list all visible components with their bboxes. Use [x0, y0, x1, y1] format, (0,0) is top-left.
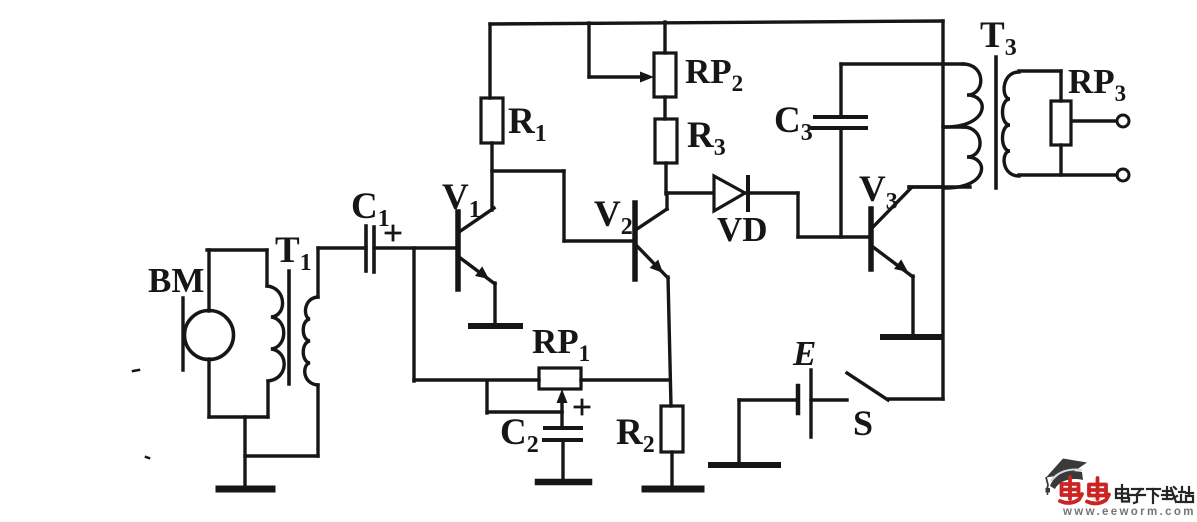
wire RP3 bottom lead — [1059, 145, 1062, 175]
wire C3 bottom lead — [839, 128, 842, 237]
wire RP3 top lead — [1059, 71, 1062, 101]
resistor R2 — [661, 406, 683, 452]
transformer T3 core — [994, 57, 998, 188]
transistor V3 — [871, 187, 943, 335]
wire BM bottom lead — [207, 359, 210, 417]
wire T1 secondary bottom lead — [316, 385, 319, 456]
potentiometer RP2 — [654, 53, 676, 97]
wire top supply rail — [490, 21, 943, 24]
wire R2 bottom lead — [670, 452, 673, 487]
capacitor C1 — [366, 226, 374, 272]
resistor R1 — [481, 98, 503, 143]
wire T1 secondary bottom to ground branch — [245, 454, 318, 457]
svg-text:BM: BM — [148, 261, 204, 300]
resistor R3 — [655, 119, 677, 163]
wire VD to corner — [746, 191, 798, 194]
wire C3 top lead — [839, 64, 842, 116]
ground (C2) — [538, 479, 589, 486]
potentiometer RP1 — [539, 368, 581, 389]
transformer T3 secondary coil — [1003, 72, 1020, 176]
svg-text:VD: VD — [717, 210, 768, 249]
wire T1 primary bottom lead — [266, 381, 269, 417]
svg-text:S: S — [853, 403, 873, 443]
wire T3 secondary bottom lead — [1019, 173, 1117, 176]
watermark chongchong characters — [1060, 477, 1109, 503]
watermark logo graduation cap — [1046, 459, 1088, 496]
wire node to diode VD — [666, 191, 714, 194]
wire RP3 wiper to output — [1072, 119, 1116, 122]
wire C2 top lead — [560, 412, 563, 426]
ground (V3 emitter) — [883, 334, 939, 340]
wire RP2 top lead — [663, 22, 666, 53]
wire RP2 to R3 — [663, 97, 666, 119]
wire corner down — [796, 193, 799, 237]
wire R1 top lead — [488, 24, 491, 98]
terminal (output bottom) — [1117, 169, 1129, 181]
capacitor C3 — [813, 117, 866, 128]
wire C2 bottom lead — [561, 441, 564, 481]
microphone BM — [183, 298, 234, 370]
wire battery to switch — [811, 398, 847, 401]
wire R1 bottom lead — [490, 143, 493, 210]
wire RP1 right to R2 node — [581, 378, 670, 381]
ground (V1 emitter) — [471, 323, 520, 329]
wire BM top lead — [207, 250, 210, 311]
wire corner to V3 base — [798, 235, 871, 238]
wire RP1 wiper loop (vertical) — [485, 381, 488, 413]
speck — [133, 370, 139, 371]
plus sign (C1 polarity) — [386, 226, 400, 240]
wire V2 emitter to R2 — [668, 277, 671, 406]
wire C1 junction down to feedback rail — [412, 248, 415, 381]
wire V1 collector to V2 base (horizontal) — [492, 169, 564, 172]
capacitor C2 — [544, 428, 581, 440]
speck — [146, 457, 149, 458]
wire RP1 wiper loop (horizontal) — [487, 410, 562, 413]
wire C3 to T3 primary top — [841, 62, 964, 65]
wire T1 secondary to C1 — [318, 246, 366, 249]
wire battery ground branch — [737, 400, 740, 463]
battery E — [798, 370, 811, 437]
wire feedback rail to RP1 left — [414, 378, 539, 381]
svg-text:www.eeworm.com: www.eeworm.com — [1062, 506, 1196, 517]
wire T3 primary bottom to V3 collector — [909, 185, 970, 188]
transformer T1 core — [287, 271, 291, 384]
ground (T1/BM) — [219, 486, 272, 493]
wire T1 secondary top lead — [316, 248, 319, 297]
wire BM loop top — [207, 248, 267, 251]
wire RP1 wiper arrow — [560, 399, 563, 412]
transformer T1 secondary coil — [303, 297, 318, 385]
terminal (output top) — [1117, 115, 1129, 127]
wire V1 collector to V2 base (vertical) — [562, 171, 565, 241]
wire T3 primary centre tap — [943, 125, 963, 128]
wire ground branch — [243, 417, 246, 487]
plus sign (C2 polarity) — [575, 400, 589, 414]
transformer T1 primary coil — [267, 286, 284, 381]
ground (R2) — [645, 486, 701, 493]
wire R3 bottom lead — [664, 163, 667, 194]
wire supply rail right vertical — [941, 21, 944, 399]
wire BM loop bottom — [209, 415, 268, 418]
diode VD — [714, 176, 748, 211]
wire RP2 wiper branch horizontal — [589, 75, 642, 78]
watermark site name characters — [1116, 485, 1193, 503]
potentiometer RP3 — [1051, 101, 1071, 145]
switch S blade — [847, 373, 888, 400]
svg-text:E: E — [792, 334, 816, 373]
wire RP2 wiper branch vertical — [587, 23, 590, 77]
transistor V2 — [564, 193, 668, 279]
wire C1 to V1 base — [374, 246, 458, 249]
wire T3 secondary top to RP3 — [1019, 69, 1061, 72]
wire switch to supply rail — [888, 397, 943, 400]
transformer T3 primary coil — [945, 64, 982, 188]
transistor V1 — [458, 208, 495, 323]
battery E left wire — [739, 398, 797, 401]
ground (battery) — [711, 462, 778, 468]
wire T1 primary top lead — [265, 250, 268, 286]
